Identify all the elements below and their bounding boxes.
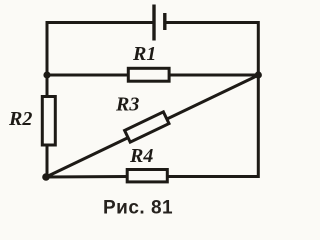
resistor R2 bbox=[42, 97, 55, 146]
wire diagonal (node A to node B) bbox=[46, 75, 258, 177]
wire top-left to battery bbox=[47, 23, 153, 76]
resistor R1 bbox=[128, 68, 169, 81]
wire R1 to right node bbox=[171, 74, 259, 77]
svg-text:R4: R4 bbox=[129, 145, 153, 167]
svg-text:Рис. 81: Рис. 81 bbox=[103, 198, 173, 219]
resistor R3 bbox=[125, 112, 169, 142]
wire battery to top-right corner bbox=[166, 23, 258, 76]
node junction right bbox=[255, 71, 262, 78]
wire mid left to R1 bbox=[47, 74, 127, 77]
svg-text:R3: R3 bbox=[115, 94, 139, 116]
svg-text:R1: R1 bbox=[132, 43, 156, 65]
battery cell bbox=[154, 5, 165, 41]
wire left rail R2 segment bbox=[46, 75, 49, 95]
wire right rail lower bbox=[169, 75, 258, 177]
wire bottom-left to R4 bbox=[46, 175, 126, 179]
node junction left bbox=[43, 71, 50, 78]
wire R2 to bottom node bbox=[46, 147, 49, 178]
svg-text:R2: R2 bbox=[8, 108, 32, 130]
resistor R4 bbox=[127, 170, 167, 182]
node junction bottom-left bbox=[42, 173, 50, 181]
